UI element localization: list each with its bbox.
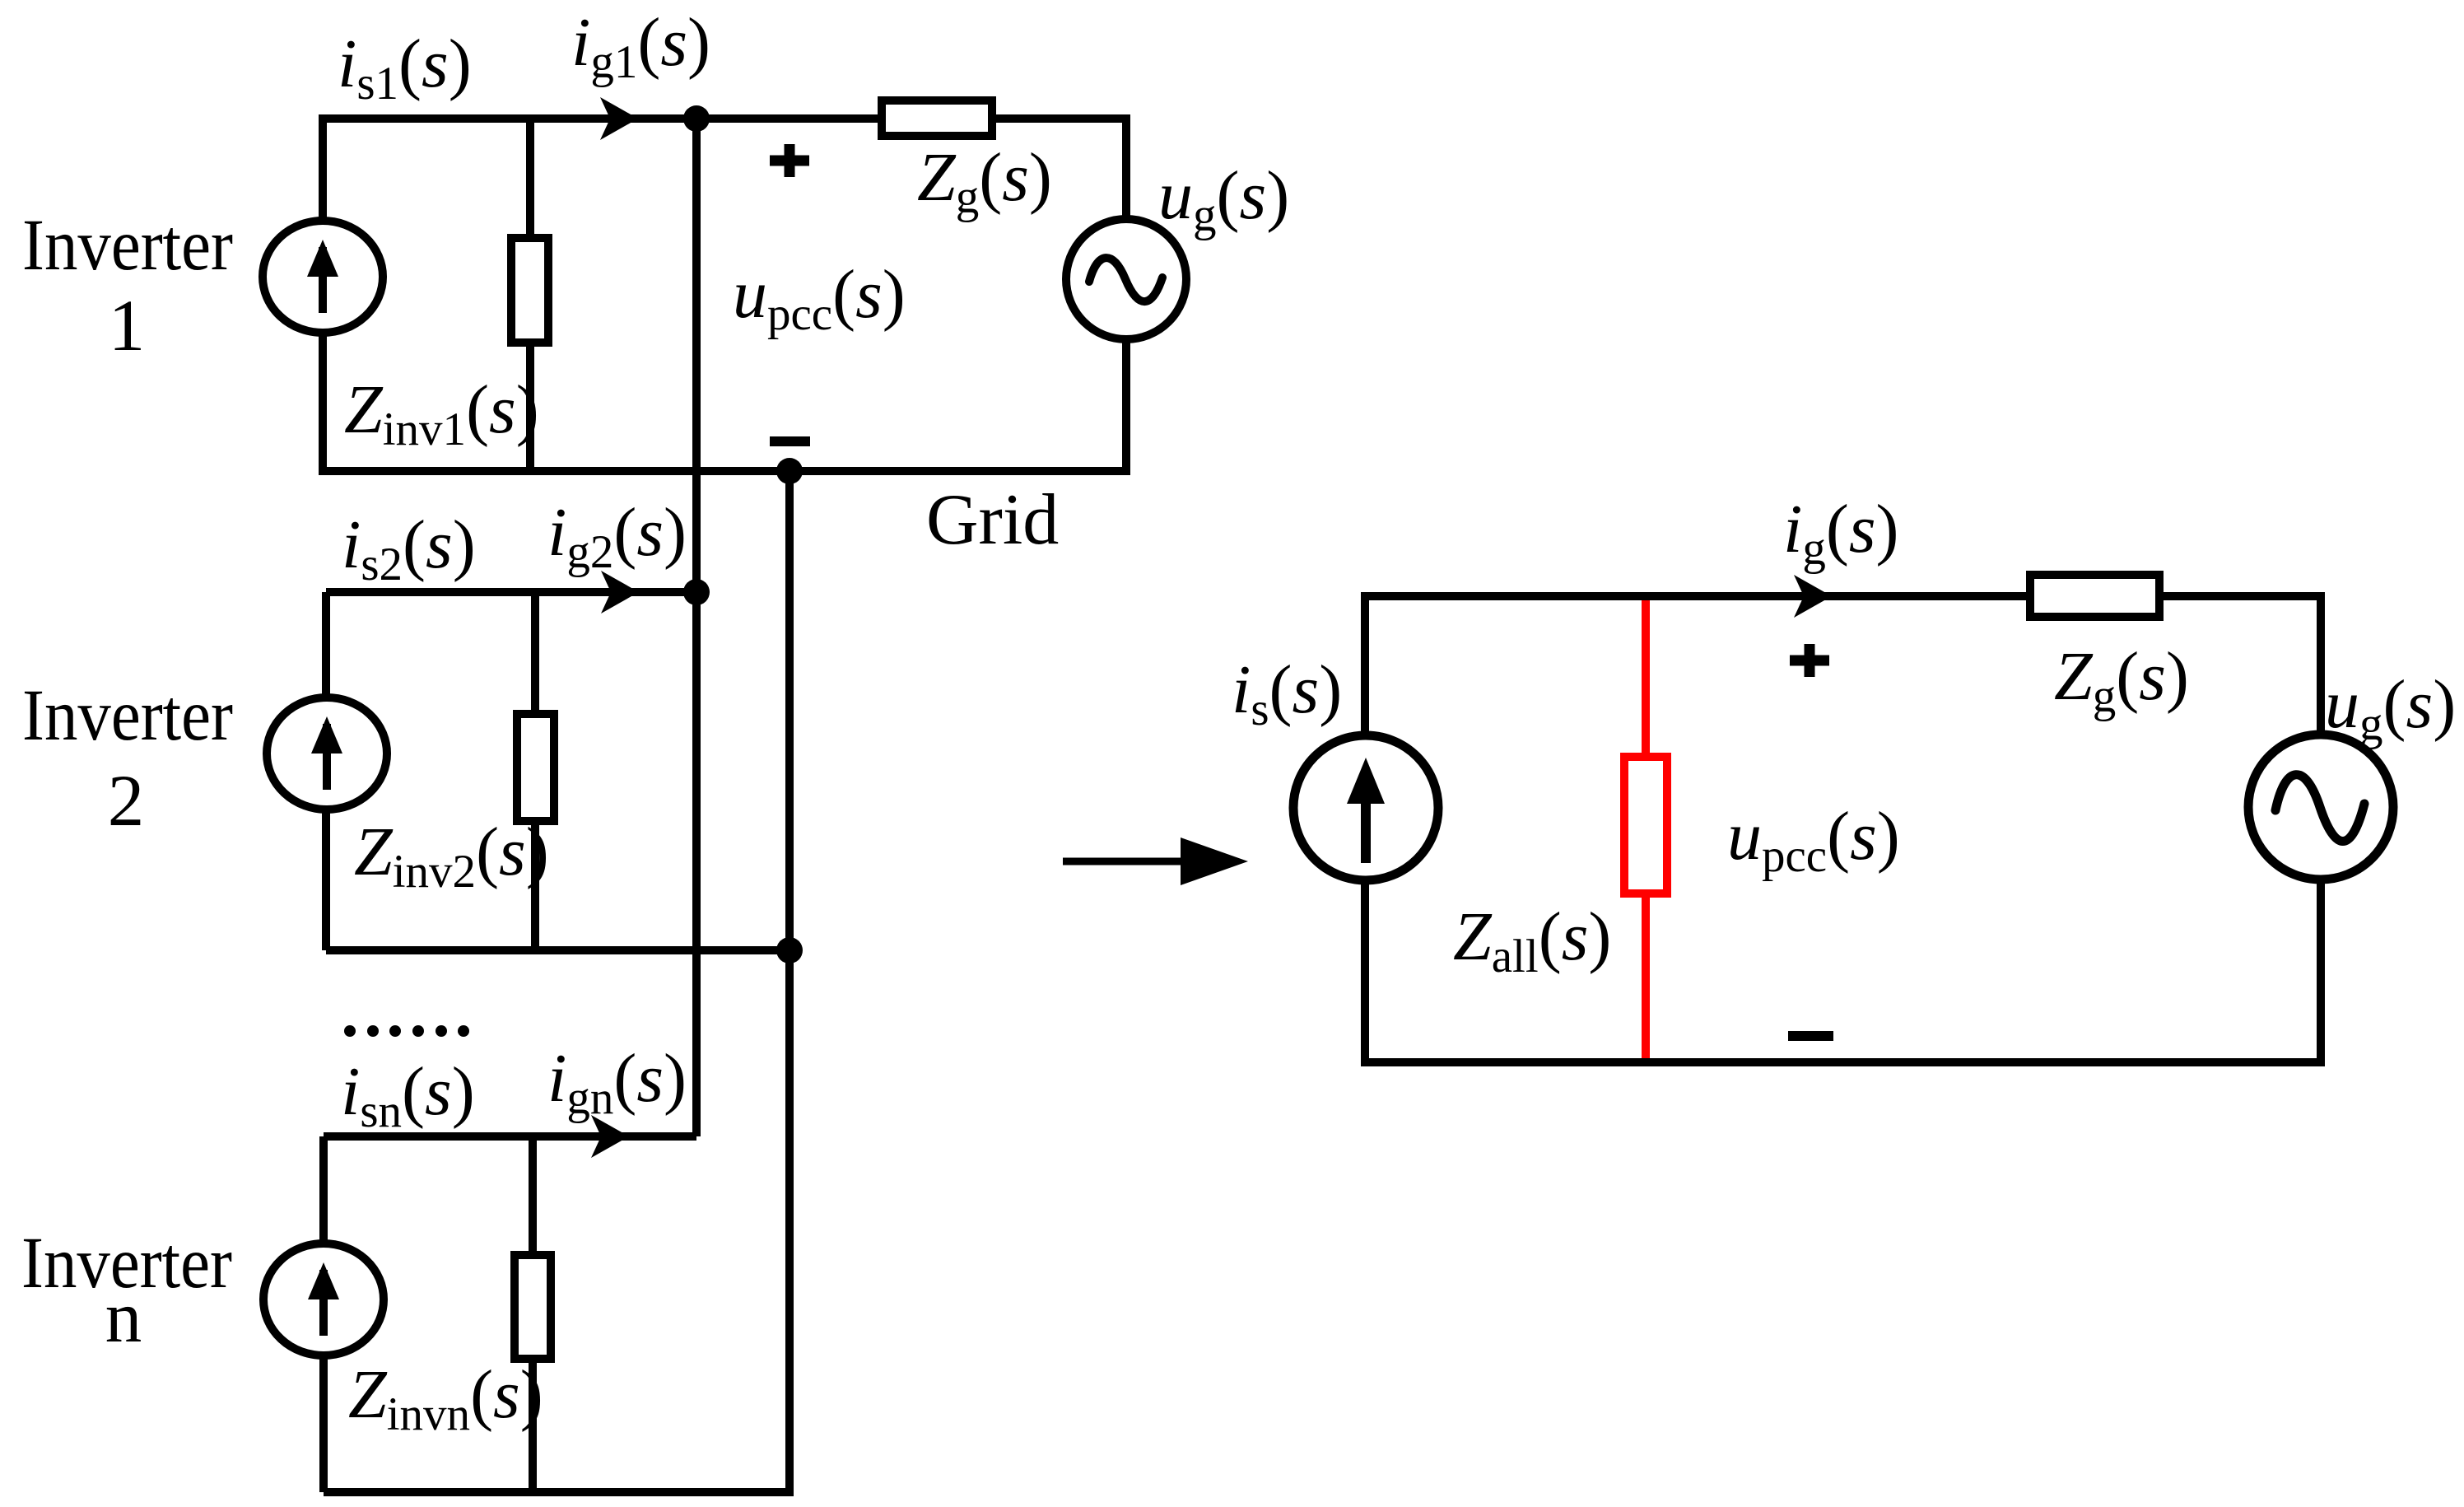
wire inverter-n top [324,1132,696,1141]
current source is (equivalent) [1293,735,1438,880]
current source is2 [267,698,387,809]
wire Zinv1 branch [526,119,534,471]
wire equivalent-circuit loop [1365,596,2321,1062]
resistor Zall (red) [1624,757,1667,893]
wire inverter2 top [326,588,696,596]
label plus top [770,144,809,177]
wire Zall branch (red) [1642,600,1650,1058]
wire inverter-n bottom [324,1488,794,1496]
svg-text:Zg(s): Zg(s) [2054,638,2189,722]
wire Zinvn branch [529,1136,537,1492]
wire inverter2 left [322,592,330,950]
node return junction inverter2 [776,937,803,963]
svg-text:1: 1 [109,286,146,366]
svg-text:2: 2 [108,761,145,842]
svg-text:ig(s): ig(s) [1783,491,1899,575]
svg-text:ug(s): ug(s) [2325,666,2456,750]
resistor Zg (top circuit) [882,100,992,136]
arrow ig (equivalent) [1794,575,1832,618]
svg-text:Inverter: Inverter [22,675,233,756]
svg-text:ug(s): ug(s) [1158,157,1289,241]
label minus equivalent [1788,1031,1833,1041]
arrow ig2 [601,571,639,614]
arrow ign [591,1115,629,1158]
svg-text:Zg(s): Zg(s) [917,139,1052,223]
big implication arrow [1063,837,1248,885]
wire bus B (return bus) [785,471,794,1492]
node return junction inverter1 [776,458,803,484]
current source isn [263,1243,384,1355]
voltage source ug (equivalent) [2248,735,2393,879]
resistor Zinv1 [511,238,548,343]
resistor Zinvn [515,1255,551,1359]
label minus top [770,436,810,446]
ellipsis dots [344,1025,469,1037]
resistor Zg (equivalent) [2030,575,2159,617]
current source is1 [263,221,383,333]
svg-text:n: n [105,1277,142,1358]
svg-text:Inverter: Inverter [22,205,233,286]
wire bus A (PCC bus) [692,119,701,1136]
resistor Zinv2 [517,714,554,821]
wire inverter2 bottom [326,946,790,954]
wire inverter-n left [319,1136,328,1492]
svg-text:Grid: Grid [926,480,1059,560]
wire Zinv2 branch [531,592,539,950]
voltage source ug (top circuit) [1066,219,1186,339]
node PCC junction ig1 [683,105,710,132]
svg-text:is(s): is(s) [1232,651,1342,735]
arrow ig1 [600,97,638,140]
label plus equivalent [1790,644,1829,677]
wire inverter1 loop (top/right/bottom/left) [323,119,1126,471]
node PCC junction ig2 [683,579,710,605]
